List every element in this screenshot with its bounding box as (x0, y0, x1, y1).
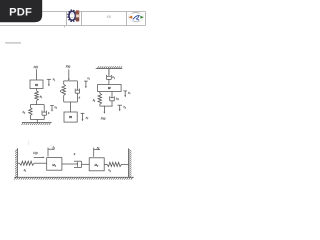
svg-text:F(t): F(t) (101, 117, 106, 121)
svg-text:PDF: PDF (9, 7, 32, 19)
svg-text:F(t): F(t) (33, 151, 38, 155)
svg-text:F(t): F(t) (66, 65, 71, 69)
svg-text:F(t): F(t) (34, 65, 39, 69)
svg-text:m: m (35, 83, 38, 87)
svg-text:m: m (69, 115, 72, 119)
svg-text:XII: XII (106, 15, 110, 19)
